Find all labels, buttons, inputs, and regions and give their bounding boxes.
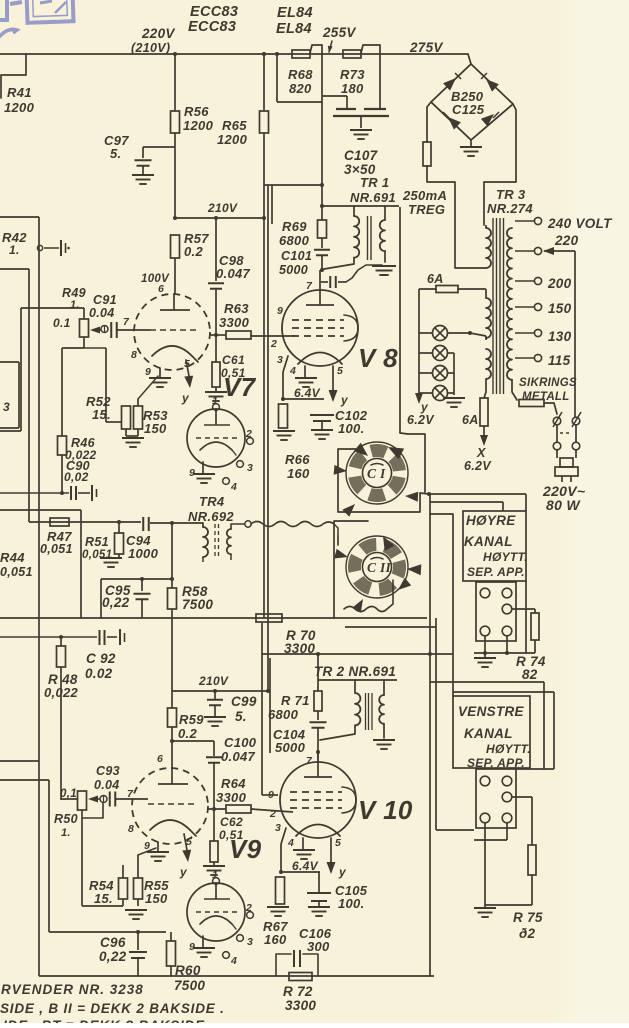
svg-text:180: 180 (341, 81, 364, 96)
svg-text:3300: 3300 (219, 315, 250, 330)
svg-text:9: 9 (189, 941, 195, 953)
svg-text:220: 220 (554, 233, 579, 248)
svg-text:R73: R73 (340, 67, 365, 82)
svg-text:TR 2 NR.691: TR 2 NR.691 (314, 664, 396, 679)
svg-text:3: 3 (275, 822, 281, 834)
svg-text:R59: R59 (179, 712, 204, 727)
svg-text:HØYTT.: HØYTT. (483, 550, 528, 564)
svg-text:y: y (181, 391, 190, 405)
svg-text:HØYTT.: HØYTT. (486, 742, 531, 756)
svg-text:X: X (476, 446, 486, 460)
svg-text:9: 9 (277, 305, 283, 317)
svg-text:C62: C62 (220, 815, 243, 829)
svg-text:0.047: 0.047 (221, 749, 256, 764)
svg-text:6.2V: 6.2V (407, 413, 435, 427)
svg-text:R44: R44 (0, 550, 25, 565)
svg-text:1.: 1. (9, 243, 20, 257)
svg-text:100.: 100. (338, 421, 365, 436)
svg-text:C91: C91 (93, 293, 117, 307)
svg-text:y: y (340, 393, 349, 407)
svg-text:NR.692: NR.692 (188, 509, 234, 524)
svg-text:EL84: EL84 (276, 21, 312, 37)
svg-text:R63: R63 (224, 301, 249, 316)
svg-text:0.04: 0.04 (89, 306, 115, 320)
svg-text:TREG: TREG (408, 202, 445, 217)
svg-text:SIDE , B II = DEKK 2 BAKSIDE .: SIDE , B II = DEKK 2 BAKSIDE . (0, 1001, 225, 1016)
svg-text:V9: V9 (229, 834, 262, 864)
svg-text:2: 2 (270, 338, 277, 350)
svg-text:1.: 1. (61, 827, 71, 839)
svg-text:9: 9 (145, 366, 151, 378)
svg-text:275V: 275V (409, 40, 443, 55)
svg-text:150: 150 (144, 421, 167, 436)
svg-text:R66: R66 (285, 452, 310, 467)
svg-text:100V: 100V (141, 273, 170, 285)
svg-text:1.: 1. (70, 299, 80, 311)
svg-text:5000: 5000 (275, 740, 306, 755)
svg-text:0,051: 0,051 (0, 565, 33, 579)
svg-text:R41: R41 (7, 85, 32, 100)
svg-text:C100: C100 (224, 735, 257, 750)
svg-text:210V: 210V (198, 674, 229, 688)
svg-text:5.: 5. (110, 146, 121, 161)
svg-text:300: 300 (307, 939, 330, 954)
svg-text:3300: 3300 (285, 998, 316, 1013)
svg-text:y: y (420, 400, 429, 414)
svg-text:7: 7 (306, 755, 313, 767)
svg-text:200: 200 (547, 276, 572, 291)
svg-text:ð2: ð2 (519, 926, 536, 941)
svg-text:IDE , BT = DEKK ? BAKSIDE: IDE , BT = DEKK ? BAKSIDE (3, 1018, 205, 1023)
svg-text:VENSTRE: VENSTRE (458, 704, 525, 719)
svg-text:R69: R69 (282, 219, 307, 234)
svg-text:2: 2 (245, 428, 252, 440)
svg-text:6800: 6800 (268, 707, 299, 722)
svg-text:R64: R64 (221, 776, 246, 791)
svg-text:4: 4 (287, 837, 294, 849)
svg-text:0,051: 0,051 (40, 542, 73, 556)
svg-text:160: 160 (264, 932, 287, 947)
svg-text:0.02: 0.02 (85, 666, 113, 681)
svg-text:1200: 1200 (217, 132, 248, 147)
svg-text:7: 7 (123, 316, 130, 328)
svg-text:100.: 100. (338, 896, 365, 911)
svg-text:NR.274: NR.274 (487, 201, 533, 216)
svg-text:9: 9 (268, 789, 274, 801)
svg-text:3: 3 (247, 462, 253, 474)
svg-text:ECC83: ECC83 (190, 4, 238, 20)
svg-text:R 72: R 72 (283, 984, 313, 999)
svg-text:0,051: 0,051 (82, 549, 112, 561)
svg-text:6.2V: 6.2V (464, 459, 492, 473)
svg-text:V 10: V 10 (358, 795, 413, 825)
svg-text:5000: 5000 (279, 263, 308, 277)
svg-text:8: 8 (128, 823, 134, 835)
svg-text:TR4: TR4 (199, 494, 225, 509)
svg-text:y: y (179, 865, 188, 879)
svg-text:ECC83: ECC83 (188, 19, 236, 35)
svg-text:150: 150 (145, 891, 168, 906)
svg-text:SEP. APP.: SEP. APP. (467, 565, 525, 579)
svg-text:R50: R50 (54, 812, 78, 826)
svg-text:V 8: V 8 (358, 343, 398, 373)
svg-text:C I: C I (367, 466, 386, 481)
svg-text:TR 3: TR 3 (496, 187, 526, 202)
svg-text:EL84: EL84 (277, 5, 313, 21)
svg-text:SIKRINGS: SIKRINGS (519, 377, 577, 389)
svg-text:R 75: R 75 (513, 910, 543, 925)
svg-text:7: 7 (306, 280, 313, 292)
svg-text:0,02: 0,02 (64, 470, 89, 484)
svg-text:130: 130 (548, 329, 572, 344)
svg-text:C99: C99 (231, 694, 257, 709)
svg-text:R51: R51 (85, 535, 109, 549)
svg-text:5: 5 (337, 365, 343, 377)
svg-text:5: 5 (335, 837, 341, 849)
svg-text:0.2: 0.2 (184, 244, 203, 259)
svg-text:6A: 6A (427, 272, 444, 286)
svg-text:C 92: C 92 (86, 651, 116, 666)
svg-text:METALL: METALL (522, 391, 570, 403)
svg-text:KANAL: KANAL (464, 534, 513, 549)
svg-text:3: 3 (277, 354, 283, 366)
svg-text:6: 6 (157, 753, 163, 765)
svg-text:15.: 15. (92, 407, 111, 422)
svg-text:0,1: 0,1 (60, 788, 77, 800)
svg-text:C93: C93 (96, 764, 120, 778)
svg-text:0,22: 0,22 (99, 949, 127, 964)
svg-text:C61: C61 (222, 353, 245, 367)
svg-text:250mA: 250mA (402, 188, 447, 203)
svg-text:6.4V: 6.4V (294, 386, 321, 400)
svg-text:0,22: 0,22 (102, 595, 130, 610)
svg-text:1: 1 (212, 869, 218, 881)
svg-text:SEP. APP.: SEP. APP. (467, 756, 525, 770)
svg-text:115: 115 (548, 353, 571, 368)
svg-text:2: 2 (269, 808, 276, 820)
svg-text:6.4V: 6.4V (292, 859, 319, 873)
svg-text:4: 4 (230, 481, 237, 493)
svg-text:15.: 15. (94, 891, 113, 906)
svg-text:NR.691: NR.691 (350, 190, 396, 205)
svg-text:R68: R68 (288, 67, 313, 82)
svg-text:160: 160 (287, 466, 310, 481)
svg-text:150: 150 (548, 301, 572, 316)
svg-text:TR 1: TR 1 (360, 175, 389, 190)
svg-text:6A: 6A (462, 413, 479, 427)
svg-text:255V: 255V (322, 25, 356, 40)
svg-text:210V: 210V (207, 201, 238, 215)
svg-text:0,51: 0,51 (221, 366, 246, 380)
svg-text:0.1: 0.1 (53, 316, 71, 330)
svg-text:1000: 1000 (128, 546, 159, 561)
svg-text:R56: R56 (184, 104, 209, 119)
svg-text:9: 9 (189, 467, 195, 479)
svg-text:8: 8 (131, 349, 137, 361)
svg-text:4: 4 (230, 955, 237, 967)
svg-text:82: 82 (522, 667, 538, 682)
svg-text:1: 1 (212, 395, 218, 407)
svg-text:R 71: R 71 (281, 693, 310, 708)
svg-text:220V: 220V (141, 26, 175, 41)
svg-text:0.2: 0.2 (178, 726, 197, 741)
svg-text:(210V): (210V) (131, 41, 170, 55)
svg-text:y: y (338, 865, 347, 879)
svg-text:6800: 6800 (279, 233, 310, 248)
svg-text:1200: 1200 (183, 118, 214, 133)
svg-text:RVENDER NR. 3238: RVENDER NR. 3238 (1, 982, 144, 997)
svg-text:C125: C125 (452, 102, 485, 117)
svg-text:820: 820 (289, 81, 312, 96)
svg-text:0.047: 0.047 (216, 266, 251, 281)
svg-text:7500: 7500 (182, 597, 213, 612)
svg-text:240 VOLT: 240 VOLT (547, 216, 613, 231)
svg-text:3: 3 (247, 936, 253, 948)
svg-text:7500: 7500 (174, 978, 205, 993)
svg-text:C101: C101 (281, 249, 312, 263)
svg-text:C II: C II (367, 560, 392, 575)
svg-text:7: 7 (127, 788, 134, 800)
svg-text:R65: R65 (222, 118, 247, 133)
svg-text:C96: C96 (100, 935, 126, 950)
svg-text:R49: R49 (62, 286, 86, 300)
svg-text:2: 2 (245, 902, 252, 914)
svg-text:1200: 1200 (4, 100, 35, 115)
svg-text:80 W: 80 W (546, 497, 581, 513)
svg-text:C107: C107 (344, 148, 379, 163)
svg-text:3: 3 (3, 400, 10, 414)
svg-text:5.: 5. (235, 709, 247, 724)
svg-text:HØYRE: HØYRE (466, 513, 516, 528)
svg-text:3300: 3300 (216, 790, 247, 805)
svg-text:0.04: 0.04 (94, 778, 120, 792)
svg-text:KANAL: KANAL (464, 726, 513, 741)
svg-text:4: 4 (289, 365, 296, 377)
